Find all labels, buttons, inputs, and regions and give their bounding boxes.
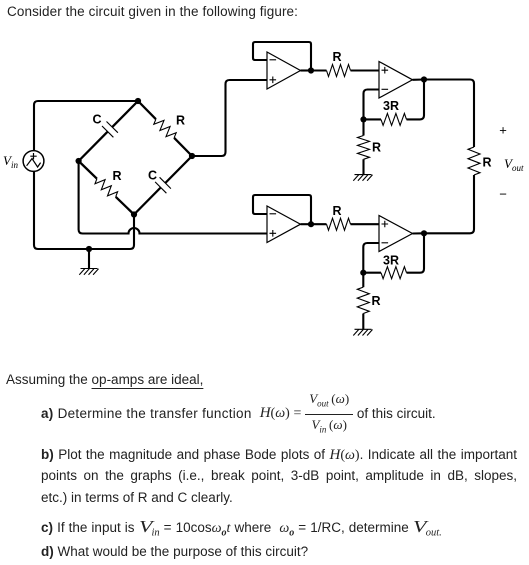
resistor R (top series)	[311, 65, 379, 77]
op-amp U3 (bottom buffer)	[267, 206, 301, 243]
node bridge bottom vertex	[131, 211, 137, 217]
wire U2 output to V_out branch	[413, 80, 475, 148]
svg-text:R: R	[371, 294, 380, 308]
resistor R (bottom-left bridge arm)	[79, 161, 134, 215]
wire bridge right vertex to op-amp U1 + input	[192, 80, 267, 156]
node U1 output	[308, 67, 314, 73]
svg-text:R: R	[482, 156, 491, 170]
svg-text:+: +	[499, 123, 507, 138]
node bridge left vertex	[76, 158, 82, 164]
resistor R (bottom series)	[311, 218, 379, 230]
svg-text:3R: 3R	[383, 99, 399, 113]
resistor R (load, V_out)	[424, 147, 480, 233]
node U3 output	[308, 221, 314, 227]
svg-text:Vout: Vout	[504, 156, 524, 173]
svg-text:R: R	[372, 141, 381, 155]
ground (bottom stage)	[355, 328, 372, 330]
wire top rail from source to bridge top	[34, 101, 138, 151]
wire U1 output stub	[301, 69, 312, 71]
resistor 3R (bottom feedback)	[363, 233, 424, 278]
ground (top stage)	[355, 174, 372, 176]
svg-text:−: −	[499, 187, 507, 202]
resistor R (top to ground)	[358, 119, 370, 174]
ground (bottom rail)	[81, 268, 98, 270]
svg-text:C: C	[148, 169, 157, 183]
source V_in	[23, 151, 44, 172]
resistor 3R (top feedback)	[364, 80, 425, 126]
svg-text:C: C	[92, 113, 101, 127]
svg-text:Vin: Vin	[3, 153, 18, 170]
svg-text:3R: 3R	[383, 254, 399, 268]
node U2 output	[421, 76, 427, 82]
capacitor C (top-left bridge arm)	[79, 101, 138, 161]
wire U4 inverting input to feedback node	[363, 243, 379, 273]
op-amp U1 (top buffer)	[267, 52, 301, 89]
node U4 inverting node	[360, 270, 366, 276]
svg-text:R: R	[112, 169, 121, 183]
svg-text:R: R	[332, 50, 341, 64]
wire U4 output stub	[413, 232, 425, 234]
node bridge top vertex	[135, 98, 141, 104]
capacitor C (bottom-right bridge arm)	[134, 156, 192, 215]
wire bridge left vertex to op-amp U3 + input (with hop)	[79, 161, 267, 234]
node U2 inverting node	[360, 116, 366, 122]
resistor R (top-right bridge arm)	[138, 101, 192, 156]
wire U3 output stub	[301, 223, 312, 225]
wire ground stub on bottom rail	[88, 249, 90, 269]
op-amp U4 (bottom gain stage)	[379, 216, 413, 252]
op-amp U2 (top gain stage)	[379, 62, 413, 99]
svg-text:R: R	[332, 204, 341, 218]
resistor R (bottom to ground)	[357, 273, 369, 330]
wire bottom rail from source to bridge bottom vertex	[34, 172, 134, 250]
wire U3 feedback loop	[253, 195, 311, 224]
svg-text:R: R	[176, 114, 185, 128]
node U4 output	[421, 230, 427, 236]
node bottom rail junction	[86, 246, 92, 252]
wire U1 feedback loop	[253, 42, 311, 71]
node bridge right vertex	[189, 153, 195, 159]
wire U2 inverting input to feedback node	[364, 90, 380, 120]
